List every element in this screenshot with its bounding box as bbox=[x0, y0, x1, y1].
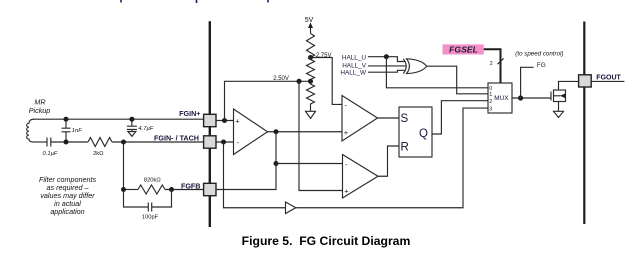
pad FGIN+ bbox=[204, 114, 216, 126]
wire: HALL_U to XOR bbox=[368, 57, 405, 62]
wire: 2.50V reference to op-amp + bbox=[225, 81, 311, 120]
svg-text:2.50V: 2.50V bbox=[273, 76, 289, 82]
node: 1nF bottom junction bbox=[64, 140, 69, 145]
node: 820k left junction bbox=[121, 187, 126, 192]
wire: comparator 1 out to S bbox=[378, 117, 400, 119]
node: 4.7uF top junction bbox=[129, 117, 134, 122]
resistor R (5V to 2.75V) bbox=[307, 34, 315, 58]
wire: 2.50V branch to comparator 2 + bbox=[299, 81, 343, 190]
node: op-amp + input junction bbox=[222, 118, 227, 123]
svg-text:2.75V: 2.75V bbox=[316, 53, 332, 59]
wire: HALL_V to XOR bbox=[368, 65, 406, 67]
svg-text:820kΩ: 820kΩ bbox=[144, 178, 162, 184]
svg-text:FGOUT: FGOUT bbox=[596, 75, 621, 82]
capacitor 1nF bbox=[62, 119, 71, 142]
HALL_U label bbox=[340, 54, 367, 76]
svg-text:HALL_W: HALL_W bbox=[340, 69, 367, 76]
ground (FET source) bbox=[554, 111, 564, 117]
svg-text:Pickup: Pickup bbox=[29, 106, 51, 115]
wire: to comparator 2 - bbox=[276, 163, 343, 165]
wire: comparator 2 out to R bbox=[378, 146, 399, 176]
ground (4.7uF) bbox=[128, 132, 136, 137]
wire: HALL_U to MUX input 0 bbox=[386, 57, 488, 88]
capacitor 4.7uF bbox=[127, 119, 137, 131]
wire: MUX out to FET gate bbox=[512, 97, 551, 99]
bus-width slash bbox=[497, 58, 503, 64]
node: 2.50V tap bbox=[308, 79, 313, 84]
wire: 820k right lead to FGFB pad bbox=[165, 189, 204, 191]
svg-text:2: 2 bbox=[490, 61, 493, 67]
node: 820k right junction bbox=[169, 187, 174, 192]
wire: TACH signal down to buffer bbox=[224, 142, 286, 208]
node: FGIN- / 2k / FGFB junction bbox=[121, 140, 126, 145]
svg-text:FG: FG bbox=[537, 62, 546, 69]
resistor 2k bbox=[88, 138, 112, 147]
svg-text:2: 2 bbox=[489, 99, 492, 105]
inductor (MR pickup coil) bbox=[27, 119, 34, 142]
wire: 820k left lead bbox=[124, 189, 139, 191]
wire: 2.75V to comparator 1 - bbox=[311, 58, 343, 105]
svg-text:+: + bbox=[344, 128, 349, 137]
svg-text:100pF: 100pF bbox=[142, 215, 159, 221]
node: op-amp output junction bbox=[274, 129, 279, 134]
svg-text:FGIN- / TACH: FGIN- / TACH bbox=[154, 134, 199, 143]
svg-text:4.7µF: 4.7µF bbox=[138, 126, 153, 132]
svg-text:0.1µF: 0.1µF bbox=[43, 151, 58, 157]
svg-text:1: 1 bbox=[489, 92, 492, 98]
comparator 2 bbox=[343, 155, 379, 199]
cropped text descenders (top edge) bbox=[121, 0, 268, 3]
wire: source down bbox=[558, 102, 560, 112]
wire: buffer out to MUX input 3 bbox=[296, 108, 488, 208]
pad FGOUT bbox=[579, 75, 592, 87]
filter note text bbox=[39, 175, 97, 216]
node: HALL_U junction bbox=[384, 54, 389, 59]
wire: output node down to FGFB pad bbox=[216, 132, 276, 190]
svg-text:MUX: MUX bbox=[494, 95, 509, 102]
pad FGFB bbox=[204, 183, 216, 195]
XOR gate U3 bbox=[403, 59, 406, 74]
comparator 1 bbox=[342, 96, 378, 142]
svg-text:R: R bbox=[401, 141, 409, 153]
node: comparator 2 branch junction bbox=[274, 161, 279, 166]
wire: FGIN+ pad to op-amp + bbox=[216, 120, 234, 122]
svg-text:application: application bbox=[50, 207, 84, 216]
resistor R (2.75V to 2.50V) bbox=[307, 58, 315, 82]
wire: op-amp output to comparator 1 + bbox=[268, 131, 343, 133]
transistor Q1 (NMOS) bbox=[550, 92, 552, 101]
svg-text:5V: 5V bbox=[305, 17, 314, 24]
svg-text:+: + bbox=[235, 117, 240, 126]
IC boundary left rail bbox=[209, 21, 211, 227]
svg-text:1nF: 1nF bbox=[72, 128, 82, 134]
resistor R (2.50V to gnd) bbox=[307, 81, 315, 111]
node: op-amp - input junction bbox=[221, 140, 226, 145]
resistor 820k bbox=[138, 185, 165, 194]
svg-text:S: S bbox=[401, 113, 409, 125]
wire: drain up to FGOUT bbox=[559, 81, 579, 90]
wire: HALL_W to XOR bbox=[368, 70, 405, 72]
node: 1nF top junction bbox=[64, 117, 69, 122]
svg-text:FGFB: FGFB bbox=[181, 182, 201, 191]
svg-text:FGSEL: FGSEL bbox=[449, 45, 478, 55]
wire: down to FGFB network bbox=[123, 142, 125, 190]
svg-text:FGIN+: FGIN+ bbox=[179, 109, 200, 118]
ground (divider) bbox=[306, 111, 316, 118]
wire: Q to MUX input 2 bbox=[432, 101, 488, 134]
svg-text:Q: Q bbox=[419, 128, 428, 140]
caption bbox=[242, 234, 411, 248]
pad FGIN-/TACH bbox=[204, 136, 216, 148]
svg-text:HALL_U: HALL_U bbox=[342, 54, 367, 61]
MUX U4 bbox=[488, 83, 512, 113]
node: 2.75V tap bbox=[308, 55, 313, 60]
wire: bottom rail to FGIN-/TACH bbox=[33, 141, 47, 143]
wire: FGOUT to right bbox=[591, 80, 624, 82]
5V supply arrow bbox=[308, 23, 313, 29]
svg-text:+: + bbox=[344, 187, 349, 196]
IC boundary right rail bbox=[583, 22, 585, 225]
node: 2.50V branch junction bbox=[297, 79, 302, 84]
wire: FGIN- pad to op-amp - bbox=[216, 141, 234, 143]
svg-text:2kΩ: 2kΩ bbox=[93, 151, 104, 157]
wire: FG stub bbox=[521, 67, 534, 98]
wire: top rail to FGIN+ bbox=[33, 118, 204, 120]
svg-text:(to speed control): (to speed control) bbox=[515, 50, 563, 57]
capacitor 100pF (parallel branch) bbox=[124, 190, 172, 212]
svg-text:Figure 5. FG Circuit Diagram: Figure 5. FG Circuit Diagram bbox=[242, 234, 411, 248]
MR Pickup label bbox=[29, 98, 51, 115]
(to speed control) note bbox=[515, 50, 563, 57]
buffer (tach path) bbox=[286, 202, 296, 214]
FGSEL highlighted label bbox=[443, 44, 484, 54]
wire: FGSEL bus to MUX select bbox=[484, 49, 501, 83]
wire: XOR out to MUX input 1 bbox=[427, 66, 488, 94]
node: MUX output junction bbox=[518, 95, 523, 100]
capacitor 0.1uF bbox=[47, 138, 51, 147]
op-amp U1 input amplifier bbox=[234, 109, 268, 155]
SR latch U2 bbox=[399, 107, 432, 157]
svg-text:3: 3 bbox=[489, 106, 492, 112]
